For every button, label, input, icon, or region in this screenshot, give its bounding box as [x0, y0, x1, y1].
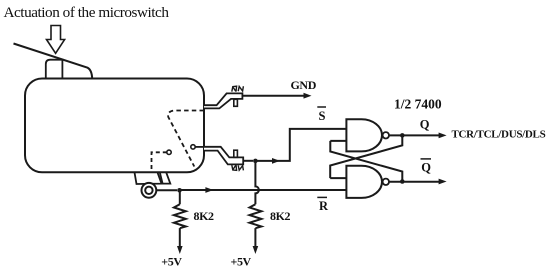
svg-text:8K2: 8K2: [194, 209, 215, 223]
input stub U1b upper: [330, 177, 346, 179]
svg-text:Actuation of the microswitch: Actuation of the microswitch: [4, 4, 170, 21]
crimp marks: [232, 86, 244, 91]
internal contact node A (to NO terminal): [191, 145, 195, 149]
arrowhead GND: [304, 93, 312, 99]
bubble U1b: [383, 179, 389, 185]
svg-text:1/2 7400: 1/2 7400: [394, 96, 442, 111]
wire: R1 to +5V: [179, 228, 181, 247]
terminal tab: [234, 150, 238, 157]
lever: [14, 44, 93, 79]
svg-text:8K2: 8K2: [270, 209, 291, 223]
internal moving blade (dashed): [168, 111, 204, 167]
svg-text:GND: GND: [291, 78, 317, 92]
svg-text:TCR/TCL/DUS/DLS: TCR/TCL/DUS/DLS: [452, 128, 546, 140]
NAND gate U1a (top): [346, 119, 382, 151]
arrowhead on S wire: [272, 158, 280, 164]
node: Qbar dot: [400, 179, 405, 184]
terminal tab: [234, 99, 238, 106]
NO spade terminal (bottom): [204, 147, 243, 165]
wire: contact A to body edge: [195, 146, 204, 148]
svg-text:Q: Q: [420, 118, 430, 132]
actuation hollow arrow: [47, 26, 65, 54]
wire: junction to riser to S input: [255, 129, 346, 161]
arrowhead on R wire: [205, 187, 213, 193]
roller wheel: [142, 183, 157, 198]
svg-text:+5V: +5V: [231, 254, 252, 268]
wire: R line to gate input: [180, 189, 347, 191]
wire: NO terminal to junction: [243, 160, 253, 162]
arrowhead Qbar: [439, 179, 447, 185]
cross-coupling: Q to U1b upper input: [330, 135, 402, 178]
wire: U1a output: [389, 134, 440, 136]
node: S junction dot: [253, 159, 258, 164]
resistor R1 8K2: [174, 204, 186, 228]
wire: roller to R junction: [156, 189, 177, 191]
NC spade terminal (top): [204, 93, 242, 108]
input stub U1a lower: [330, 140, 346, 142]
internal contact node B (dashed to common): [167, 150, 171, 154]
wire: R2 to +5V: [254, 228, 256, 247]
svg-text:+5V: +5V: [161, 254, 182, 268]
cross-coupling: Qbar to U1a lower input: [330, 141, 402, 182]
svg-text:S: S: [319, 109, 326, 123]
bubble U1a: [383, 132, 389, 138]
NAND gate U1b (bottom): [346, 166, 382, 198]
arrowhead Q: [439, 133, 447, 139]
svg-text:Q: Q: [421, 161, 431, 175]
microswitch body: [25, 79, 204, 173]
node: Q dot: [400, 133, 405, 138]
plunger (switch button): [46, 60, 63, 80]
roller bracket: [135, 172, 162, 184]
wire: U1b output: [389, 181, 440, 183]
svg-text:R: R: [319, 199, 329, 213]
crimp marks: [232, 165, 244, 170]
node: R junction dot: [177, 188, 182, 193]
resistor R2 8K2: [250, 204, 262, 228]
wire: GND line: [242, 95, 306, 97]
wire: junction down with hop over R wire: [255, 163, 259, 204]
wire: R junction down: [179, 190, 181, 204]
